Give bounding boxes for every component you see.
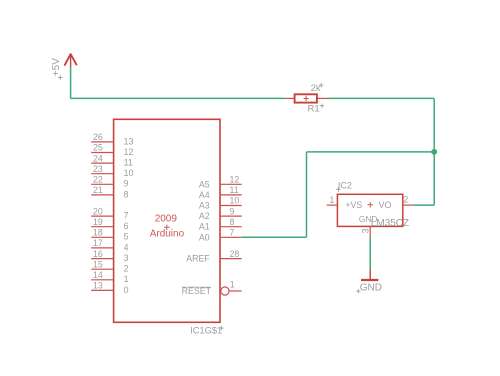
svg-text:17: 17 bbox=[93, 238, 103, 248]
origin cross of +5V symbol bbox=[58, 75, 63, 80]
wire right vertical down to LM35 output bbox=[433, 98, 435, 205]
svg-text:VO: VO bbox=[379, 200, 392, 210]
svg-text:0: 0 bbox=[124, 285, 129, 295]
junction node (net to A0) bbox=[431, 149, 437, 155]
pin 8 (A1) of IC1 bbox=[199, 217, 242, 232]
pin 23 (10) of IC1 bbox=[91, 164, 133, 178]
wire junction left branch bbox=[307, 151, 435, 153]
svg-text:10: 10 bbox=[124, 168, 134, 178]
svg-text:2k: 2k bbox=[311, 83, 321, 94]
pin 1 (+VS) of IC2 bbox=[327, 195, 363, 210]
svg-text:A4: A4 bbox=[199, 190, 210, 200]
svg-text:19: 19 bbox=[93, 217, 103, 227]
svg-text:11: 11 bbox=[124, 158, 133, 168]
pin 15 (2) of IC1 bbox=[91, 259, 128, 273]
pin 7 (A0) of IC1 bbox=[199, 228, 241, 243]
svg-text:R1: R1 bbox=[308, 104, 320, 115]
pin 20 (7) of IC1 bbox=[91, 206, 128, 220]
svg-text:13: 13 bbox=[124, 136, 134, 146]
svg-text:15: 15 bbox=[93, 259, 103, 269]
pin 26 (13) of IC1 bbox=[91, 132, 133, 146]
svg-text:21: 21 bbox=[93, 185, 103, 195]
pin 22 (9) of IC1 bbox=[91, 175, 128, 189]
svg-text:12: 12 bbox=[124, 147, 134, 157]
svg-text:IC1G$1: IC1G$1 bbox=[190, 326, 222, 336]
svg-text:8: 8 bbox=[230, 217, 235, 227]
pin 10 (A3) of IC1 bbox=[199, 196, 242, 211]
op-amp/sensor IC2 LM35CZ body bbox=[337, 194, 402, 226]
pin 3 (GND) of IC2 bbox=[359, 214, 377, 237]
svg-text:GND: GND bbox=[360, 282, 382, 293]
svg-text:23: 23 bbox=[93, 164, 103, 174]
wire into IC2 pin 2 bbox=[413, 204, 434, 206]
pin 13 (0) of IC1 bbox=[91, 281, 128, 295]
pin 28 (AREF) of IC1 bbox=[186, 249, 241, 264]
svg-text:18: 18 bbox=[93, 228, 103, 238]
svg-text:A2: A2 bbox=[199, 211, 210, 221]
wire R1 to top-right corner bbox=[327, 97, 434, 99]
svg-text:Arduino: Arduino bbox=[150, 228, 185, 239]
svg-text:20: 20 bbox=[93, 206, 103, 216]
svg-text:A3: A3 bbox=[199, 201, 210, 211]
pin 2 (VO) of IC2 bbox=[379, 194, 414, 210]
svg-text:3: 3 bbox=[360, 228, 370, 233]
svg-text:7: 7 bbox=[230, 228, 235, 238]
svg-text:11: 11 bbox=[230, 185, 239, 195]
svg-text:22: 22 bbox=[93, 175, 103, 185]
pin 21 (8) of IC1 bbox=[91, 185, 128, 199]
svg-text:24: 24 bbox=[93, 153, 103, 163]
svg-text:A5: A5 bbox=[199, 179, 210, 189]
wire middle vertical down bbox=[306, 152, 308, 237]
svg-text:3: 3 bbox=[124, 253, 129, 263]
svg-text:2009: 2009 bbox=[155, 213, 178, 224]
svg-text:1: 1 bbox=[330, 195, 335, 205]
pin 18 (5) of IC1 bbox=[91, 228, 128, 242]
svg-text:1: 1 bbox=[230, 280, 235, 290]
pin 12 (A5) of IC1 bbox=[199, 175, 242, 190]
svg-text:4: 4 bbox=[124, 242, 129, 252]
svg-text:LM35CZ: LM35CZ bbox=[371, 218, 409, 229]
svg-text:25: 25 bbox=[93, 143, 103, 153]
IC1 Arduino 2009 body bbox=[114, 119, 220, 322]
svg-text:8: 8 bbox=[124, 189, 129, 199]
wire +5V horizontal to R1 bbox=[71, 97, 285, 99]
pin 19 (6) of IC1 bbox=[91, 217, 128, 231]
pin 24 (11) of IC1 bbox=[91, 153, 133, 167]
svg-text:16: 16 bbox=[93, 249, 103, 259]
svg-text:+5V: +5V bbox=[51, 58, 62, 76]
pin 14 (1) of IC1 bbox=[91, 270, 128, 284]
wire +5V down segment bbox=[70, 67, 72, 99]
pin 25 (12) of IC1 bbox=[91, 143, 133, 157]
svg-text:7: 7 bbox=[124, 211, 129, 221]
pin 16 (3) of IC1 bbox=[91, 249, 128, 263]
origin cross of IC2 gate bbox=[368, 202, 374, 208]
svg-text:+VS: +VS bbox=[345, 200, 362, 210]
svg-text:A1: A1 bbox=[199, 222, 210, 232]
svg-text:2: 2 bbox=[403, 194, 408, 204]
svg-text:1: 1 bbox=[124, 274, 129, 284]
wire to Arduino A0 pin bbox=[241, 236, 306, 238]
svg-text:6: 6 bbox=[124, 221, 129, 231]
pin 9 (A2) of IC1 bbox=[199, 206, 242, 221]
wire IC2 GND pin down to ground bbox=[369, 237, 371, 270]
svg-text:AREF: AREF bbox=[186, 254, 210, 264]
svg-text:14: 14 bbox=[93, 270, 103, 280]
svg-text:2: 2 bbox=[124, 264, 129, 274]
origin cross of IC1 bbox=[164, 225, 170, 231]
svg-text:13: 13 bbox=[93, 281, 103, 291]
svg-text:5: 5 bbox=[124, 232, 129, 242]
svg-text:A0: A0 bbox=[199, 232, 210, 242]
supply +5V symbol P+1 bbox=[65, 54, 77, 67]
pin 11 (A4) of IC1 bbox=[199, 185, 242, 200]
resistor R1 (2k) bbox=[285, 94, 327, 102]
svg-text:9: 9 bbox=[230, 206, 235, 216]
svg-text:10: 10 bbox=[230, 196, 240, 206]
svg-text:26: 26 bbox=[93, 132, 103, 142]
svg-text:9: 9 bbox=[124, 179, 129, 189]
ground symbol GND bbox=[361, 269, 378, 280]
svg-text:12: 12 bbox=[230, 175, 240, 185]
svg-text:28: 28 bbox=[230, 249, 240, 259]
pin 1 (RESET, active low, bubble) of IC1 bbox=[182, 280, 242, 296]
pin 17 (4) of IC1 bbox=[91, 238, 128, 252]
